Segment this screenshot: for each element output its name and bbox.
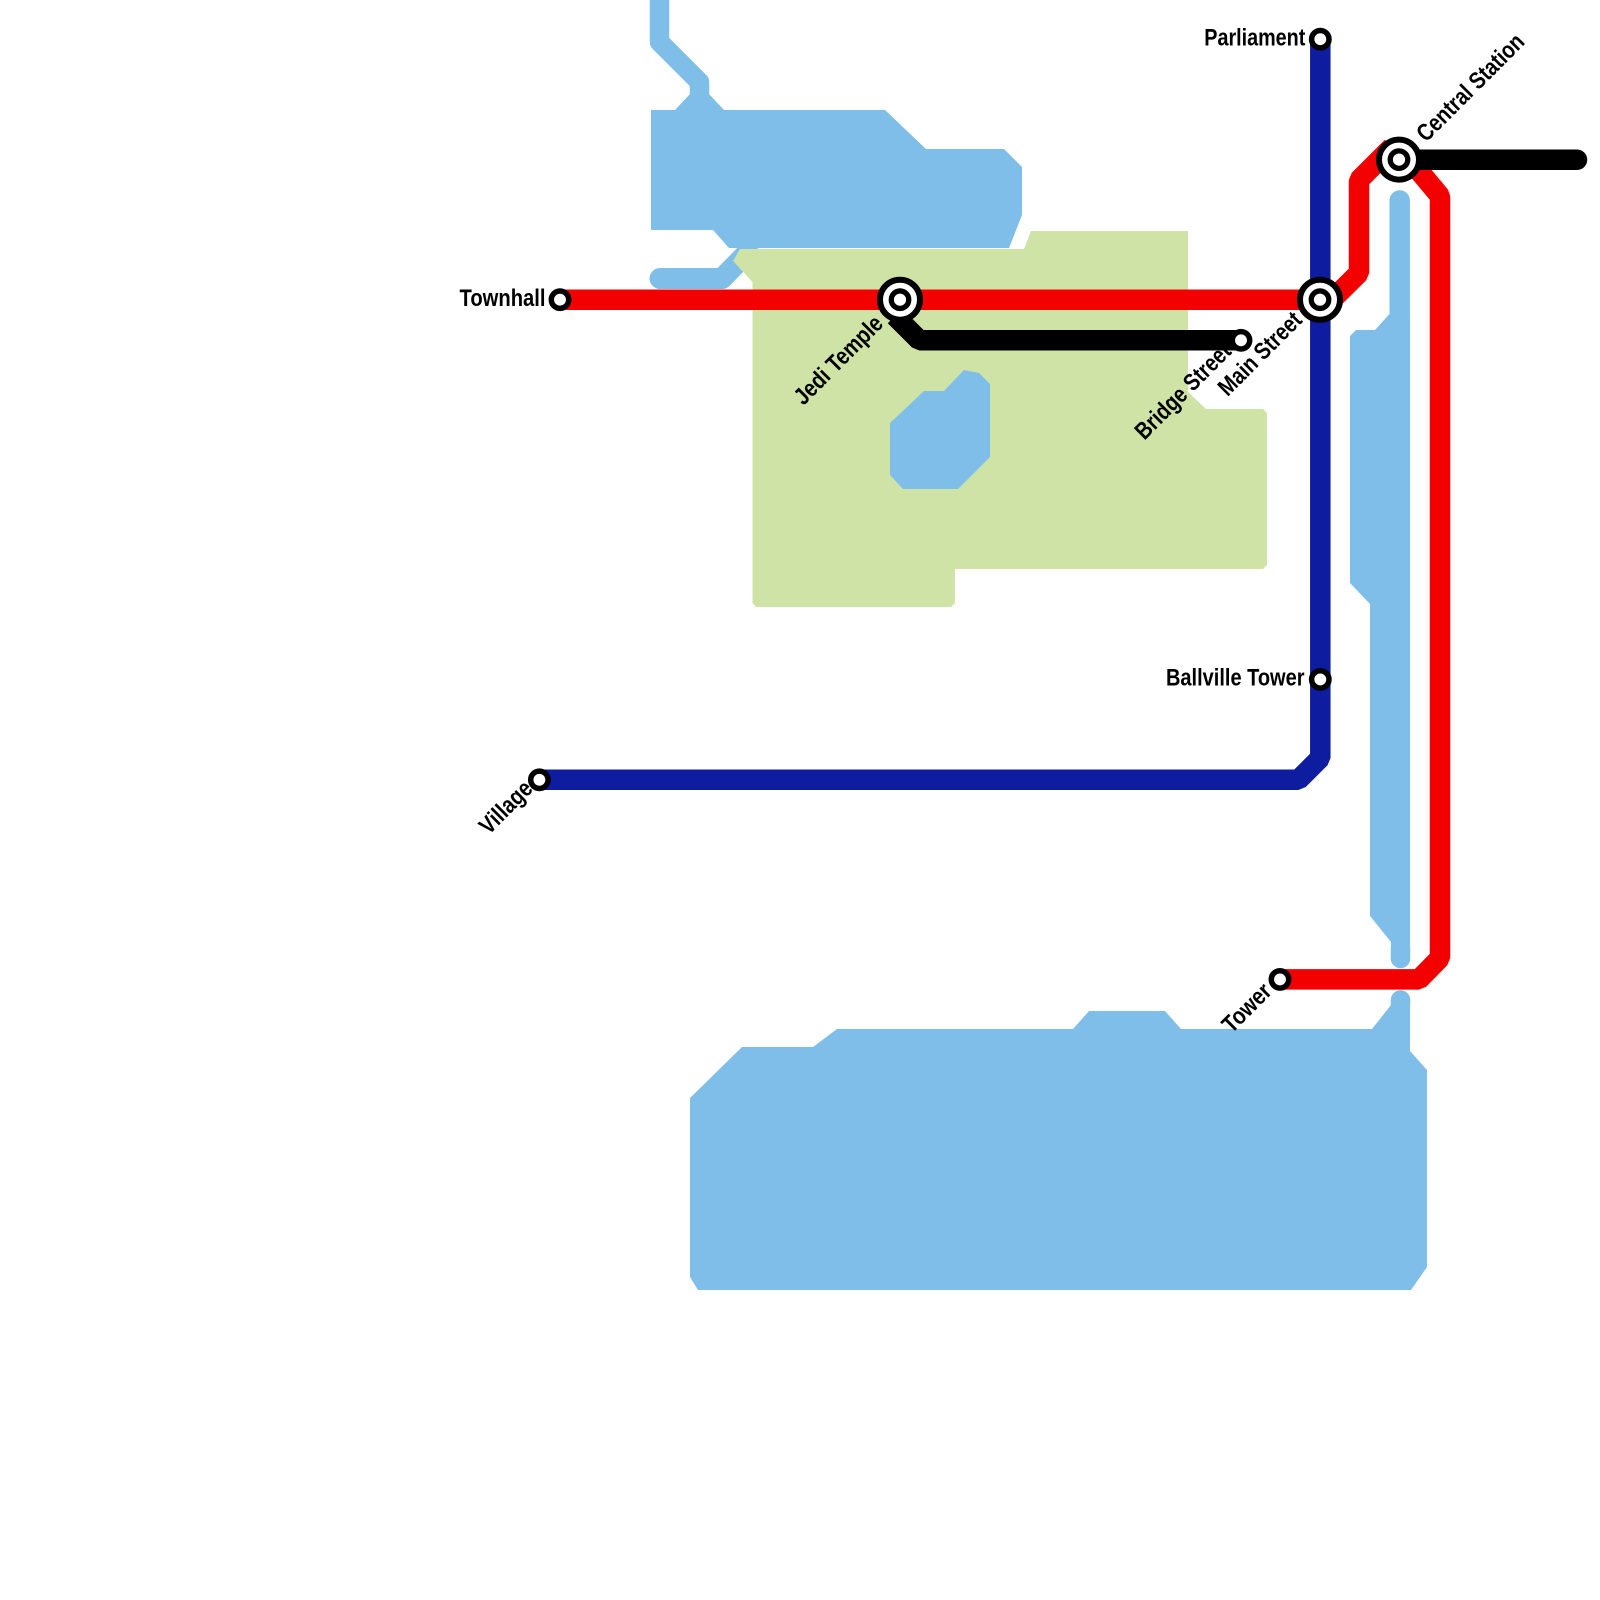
river mouth flare into upper lake: [675, 94, 724, 110]
svg-text:Parliament: Parliament: [1204, 25, 1305, 52]
upper lake: [651, 110, 1022, 248]
svg-text:Townhall: Townhall: [460, 285, 546, 312]
black line: Central Station east: [1399, 149, 1577, 170]
bottom lake: [690, 1005, 1427, 1290]
station Bridge Street: [1232, 332, 1249, 349]
black line: Jedi Temple - Bridge Street: [895, 316, 1241, 340]
station Townhall: [551, 291, 568, 308]
station Ballville Tower: [1312, 671, 1329, 688]
navy line: Parliament - Main Street - Ballville Tower - Village: [539, 39, 1320, 780]
river rounded end above red line crossing: [1391, 948, 1411, 959]
channel stub (west of park, below upper lake): [660, 252, 748, 279]
station Parliament: [1312, 31, 1329, 48]
river (top, flowing from north into upper lake): [660, 0, 700, 100]
station Tower: [1271, 971, 1288, 988]
svg-text:Ballville Tower: Ballville Tower: [1166, 665, 1305, 692]
station Village: [531, 771, 548, 788]
park lake: [890, 370, 990, 489]
red line: Townhall - Jedi Temple - Main Street - Central Station - Tower: [560, 147, 1440, 979]
interchange Main Street: [1300, 280, 1340, 320]
river rounded end below red line crossing: [1391, 1000, 1411, 1006]
right river (wide middle section): [1350, 314, 1410, 952]
park: [733, 231, 1267, 607]
interchange Central Station: [1379, 140, 1419, 180]
interchange Jedi Temple: [880, 280, 920, 320]
right river (narrow top with round cap): [1389, 201, 1410, 331]
